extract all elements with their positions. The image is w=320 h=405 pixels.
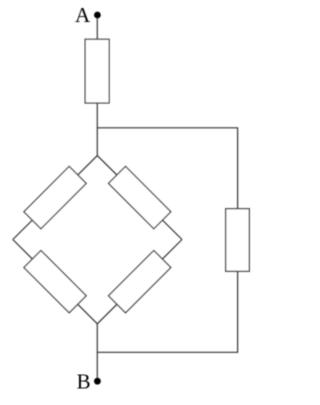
svg-text:B: B — [77, 370, 91, 394]
svg-text:A: A — [75, 3, 91, 27]
